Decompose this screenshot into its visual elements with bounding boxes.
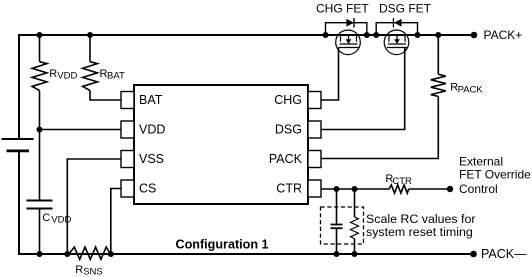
node reset resistor bottom junction bbox=[352, 251, 358, 257]
wire RPACK top lead bbox=[437, 35, 439, 74]
label pin DSG bbox=[275, 123, 302, 137]
wire RVDD top lead bbox=[39, 35, 41, 62]
label DSG FET bbox=[379, 2, 432, 16]
svg-text:R: R bbox=[75, 264, 83, 276]
svg-text:R: R bbox=[49, 68, 57, 80]
svg-text:CHG: CHG bbox=[274, 93, 302, 107]
wire reset cap top lead bbox=[336, 189, 338, 225]
svg-text:PACK: PACK bbox=[269, 152, 303, 166]
svg-text:CHG FET: CHG FET bbox=[316, 2, 369, 16]
transistor Q2 DSG FET bbox=[384, 30, 409, 55]
svg-text:VDD: VDD bbox=[139, 123, 165, 137]
wire CVDD bottom lead bbox=[39, 209, 41, 255]
label PACK+ bbox=[484, 28, 523, 42]
node CVDD bottom junction bbox=[37, 251, 43, 257]
wire RBAT top lead bbox=[89, 35, 91, 62]
label pin CHG bbox=[274, 93, 302, 107]
node CS bottom junction bbox=[108, 251, 114, 257]
svg-text:C: C bbox=[42, 212, 50, 224]
svg-text:Scale RC values for: Scale RC values for bbox=[366, 212, 476, 226]
node RPACK top junction bbox=[435, 32, 441, 38]
resistor R reset bbox=[351, 217, 359, 239]
svg-text:VDD: VDD bbox=[57, 70, 77, 81]
wire VSS pin bbox=[67, 159, 121, 254]
label External FET Override Control bbox=[459, 155, 531, 197]
svg-text:DSG FET: DSG FET bbox=[379, 2, 432, 16]
resistor RCTR bbox=[389, 185, 409, 193]
dashed RC box bbox=[321, 207, 364, 244]
wire reset cap bottom lead bbox=[336, 228, 338, 254]
svg-text:CS: CS bbox=[139, 182, 156, 196]
pin CHG box bbox=[308, 92, 321, 109]
node RVDD top junction bbox=[37, 32, 43, 38]
label PACK- bbox=[481, 247, 527, 261]
wire battery negative to bottom rail bbox=[18, 151, 20, 254]
pin CTR box bbox=[308, 180, 321, 197]
node PACK- terminal bbox=[470, 251, 477, 258]
label RCTR bbox=[385, 173, 412, 187]
node reset cap bottom junction bbox=[334, 251, 340, 257]
node RBAT top junction bbox=[87, 32, 93, 38]
svg-text:SNS: SNS bbox=[83, 267, 103, 277]
label RSNS bbox=[75, 264, 103, 277]
node VDD junction bbox=[37, 127, 43, 133]
transistor Q1 CHG FET bbox=[336, 30, 361, 55]
node CTR resistor junction bbox=[352, 186, 358, 192]
svg-text:VDD: VDD bbox=[51, 214, 71, 225]
label pin VSS bbox=[139, 152, 164, 166]
label pin PACK bbox=[269, 152, 303, 166]
svg-text:BAT: BAT bbox=[107, 70, 125, 81]
node VSS bottom junction bbox=[64, 251, 70, 257]
label RVDD bbox=[49, 68, 77, 81]
svg-text:system reset timing: system reset timing bbox=[366, 225, 473, 239]
node CHG FET drain junction bbox=[364, 32, 370, 38]
wire CTR pin to RCTR bbox=[321, 188, 390, 190]
resistor RVDD bbox=[32, 62, 47, 91]
svg-text:VSS: VSS bbox=[139, 152, 164, 166]
battery BT1 bbox=[2, 139, 34, 151]
label pin CTR bbox=[276, 182, 302, 196]
svg-text:Control: Control bbox=[459, 182, 498, 196]
wire reset resistor top lead bbox=[354, 189, 356, 217]
resistor RBAT bbox=[83, 62, 98, 91]
wire left rail to battery bbox=[18, 34, 20, 139]
svg-text:CTR: CTR bbox=[392, 176, 412, 187]
label pin CS bbox=[139, 182, 156, 196]
wire RCTR to control terminal bbox=[409, 188, 448, 190]
node DSG FET drain junction bbox=[415, 32, 421, 38]
svg-text:PACK+: PACK+ bbox=[484, 28, 523, 42]
label pin VDD bbox=[139, 123, 165, 137]
resistor RPACK bbox=[431, 74, 446, 96]
svg-text:External: External bbox=[459, 155, 503, 169]
wire RPACK bottom to PACK pin bbox=[321, 96, 438, 158]
resistor RSNS bbox=[69, 247, 111, 259]
svg-text:Configuration 1: Configuration 1 bbox=[176, 237, 269, 251]
label CHG FET bbox=[316, 2, 369, 16]
svg-text:CTR: CTR bbox=[276, 182, 302, 196]
pin BAT box bbox=[121, 92, 134, 109]
label pin BAT bbox=[139, 93, 163, 107]
pin VSS box bbox=[121, 151, 134, 168]
node Control terminal bbox=[447, 186, 453, 192]
wire bottom rail PACK- bbox=[18, 253, 471, 255]
svg-text:PACK: PACK bbox=[458, 84, 484, 95]
label CVDD bbox=[42, 212, 71, 226]
pin CS box bbox=[121, 180, 134, 197]
capacitor C reset bbox=[331, 225, 343, 229]
wire RVDD bottom to CVDD bbox=[39, 91, 41, 201]
wire DSG gate to DSG pin bbox=[321, 48, 405, 130]
label Configuration 1 bbox=[176, 237, 269, 251]
capacitor CVDD bbox=[27, 201, 53, 209]
svg-text:PACK—: PACK— bbox=[481, 247, 527, 261]
label RPACK bbox=[450, 82, 483, 96]
wire reset resistor bottom lead bbox=[354, 239, 356, 254]
wire CHG gate to CHG pin bbox=[321, 48, 339, 101]
label Scale RC values bbox=[366, 212, 476, 239]
wire RBAT to BAT pin bbox=[90, 91, 121, 101]
wire CS pin bbox=[111, 189, 121, 255]
pin PACK box bbox=[308, 151, 321, 168]
node PACK+ terminal bbox=[471, 32, 478, 39]
svg-text:DSG: DSG bbox=[275, 123, 302, 137]
pin DSG box bbox=[308, 121, 321, 138]
label RBAT bbox=[100, 68, 125, 81]
wire top rail PACK+ bbox=[18, 34, 471, 36]
op-amp U1 IC body bbox=[134, 85, 308, 204]
svg-text:BAT: BAT bbox=[139, 93, 163, 107]
node DSG FET source junction bbox=[373, 32, 379, 38]
svg-text:FET Override: FET Override bbox=[459, 168, 531, 182]
node CTR cap junction bbox=[334, 186, 340, 192]
node CHG FET source junction bbox=[323, 32, 329, 38]
pin VDD box bbox=[121, 121, 134, 138]
diode D2 DSG FET body diode loop bbox=[376, 18, 417, 35]
wire VDD pin bbox=[40, 129, 122, 131]
diode D1 CHG FET body diode loop bbox=[326, 18, 367, 35]
